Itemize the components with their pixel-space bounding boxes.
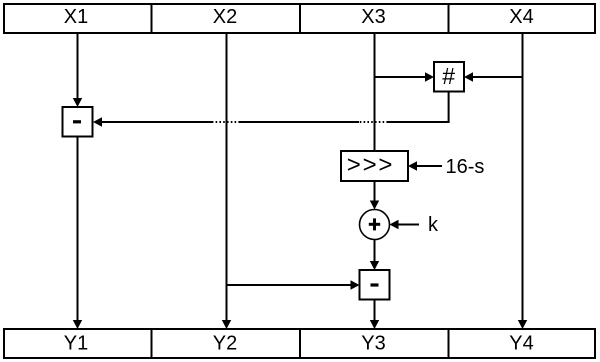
wire hop over X3 line (dotted) [359, 121, 388, 123]
svg-text:>>>: >>> [347, 152, 394, 179]
xor/concat box U2 "#" [434, 62, 464, 92]
svg-text:k: k [428, 214, 439, 236]
svg-text:Y4: Y4 [509, 333, 533, 355]
arrow 16-s into U3 [408, 161, 442, 170]
wire X1 to U1 [73, 33, 82, 107]
svg-text:X2: X2 [213, 6, 237, 28]
svg-text:#: # [442, 63, 455, 89]
wire X3 to U3 [374, 33, 376, 151]
svg-text:Y2: Y2 [213, 333, 237, 355]
svg-text:Y1: Y1 [64, 333, 88, 355]
wire solid segment into U1 with arrowhead [93, 117, 213, 126]
wire U1 to Y1 [73, 136, 82, 329]
subtractor box U5 (sum - X2) [360, 270, 390, 300]
shift box U3 ">>>" [341, 151, 408, 181]
input register bar X [4, 4, 595, 33]
svg-text:Y3: Y3 [361, 333, 385, 355]
wire U5 to Y3 [370, 300, 379, 330]
wire X3 branch to U2 [375, 72, 435, 81]
svg-text:X4: X4 [509, 6, 533, 28]
adder circle U4 "+" [360, 210, 390, 240]
wire U4 to U5 [370, 240, 379, 271]
wire X4 branch to U2 [464, 72, 523, 81]
svg-text:X3: X3 [361, 6, 385, 28]
wire U3 to U4 [370, 181, 379, 210]
subtractor box U1 (X1 - #out) [63, 107, 93, 137]
svg-text:X1: X1 [64, 6, 88, 28]
arrow k into U4 [390, 220, 420, 229]
output register bar Y [4, 329, 595, 358]
wire X2 to Y2 [222, 33, 231, 329]
svg-text:16-s: 16-s [446, 156, 485, 178]
wire X4 to Y4 [518, 33, 527, 329]
wire X2 branch to U5 [227, 280, 360, 289]
wire hop over X2 line (dotted) [213, 121, 240, 123]
wire solid segment between hops [240, 121, 359, 123]
wire U2 output elbow down [448, 92, 450, 123]
wire U2 output to U1 (solid segment right) [388, 121, 450, 123]
